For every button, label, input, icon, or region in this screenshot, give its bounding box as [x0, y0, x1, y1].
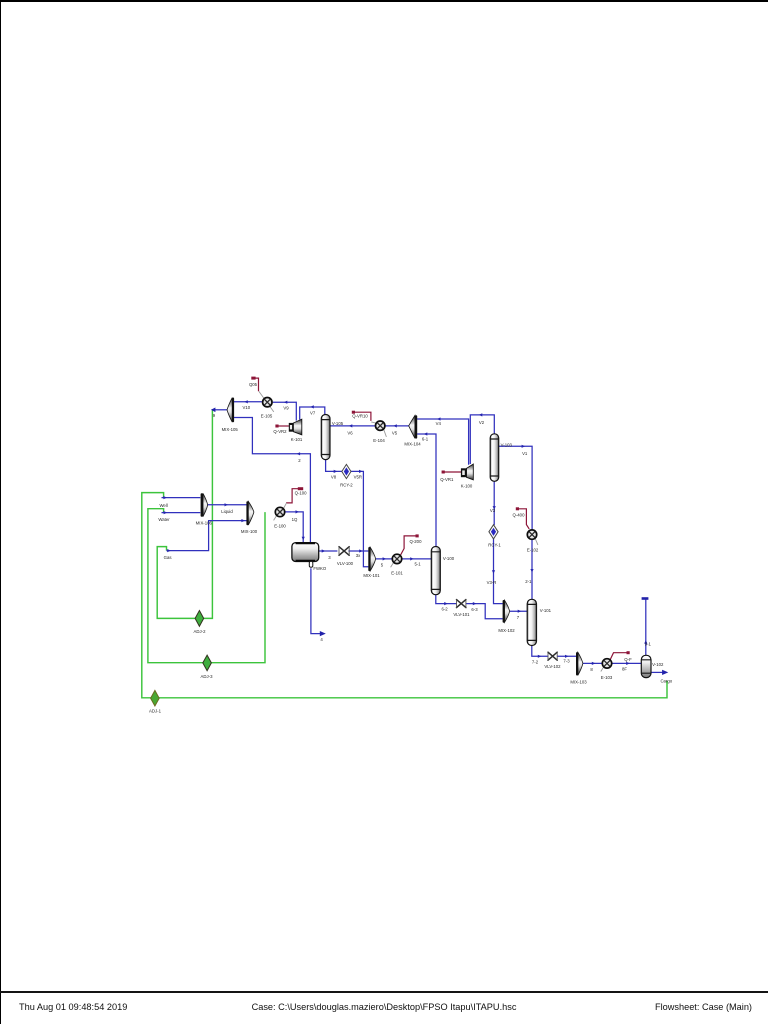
arrow 2-1 [530, 569, 533, 573]
svg-text:ADJ-2: ADJ-2 [194, 629, 207, 634]
arrow Gas [167, 549, 171, 552]
svg-text:3: 3 [328, 555, 331, 560]
cooler E-105 [259, 391, 274, 412]
arrow V5R [359, 470, 363, 473]
footer flowsheet text [655, 1002, 752, 1012]
svg-text:V3-R: V3-R [487, 580, 497, 585]
arrow V3-R [492, 570, 495, 574]
arrow V6 [349, 424, 353, 427]
svg-text:5-1: 5-1 [414, 561, 421, 566]
svg-text:VLV-100: VLV-100 [337, 561, 354, 566]
energy stream Q-VR10 [352, 412, 371, 421]
svg-text:E-101: E-101 [391, 571, 403, 576]
svg-text:5: 5 [381, 562, 384, 567]
svg-text:RCY-2: RCY-2 [340, 483, 353, 488]
wire ADJ-3 net (Water to stream x) [148, 509, 265, 663]
arrow Gas up [241, 519, 245, 522]
svg-text:Q-200: Q-200 [410, 539, 423, 544]
arrow Well [163, 496, 167, 499]
arrow V5 [393, 424, 397, 427]
wire V7 [300, 407, 325, 420]
svg-text:6-3: 6-3 [471, 607, 478, 612]
svg-text:Q-F: Q-F [624, 657, 632, 662]
svg-text:ADJ-1: ADJ-1 [149, 709, 162, 714]
svg-text:E-104: E-104 [373, 438, 385, 443]
svg-text:MIX-101: MIX-101 [363, 573, 380, 578]
arrow 2 [297, 452, 301, 455]
energy stream Q-100 [286, 489, 300, 503]
ARROWS [163, 400, 647, 665]
svg-text:Q-400: Q-400 [513, 513, 526, 518]
energy end Q-100 [298, 487, 303, 490]
mixer MIX-105 [227, 398, 234, 423]
arrow 5 [383, 557, 387, 560]
svg-text:Q-VR10: Q-VR10 [352, 414, 368, 419]
svg-text:Well: Well [159, 503, 167, 508]
svg-text:Water: Water [158, 517, 170, 522]
svg-text:V-100: V-100 [443, 556, 455, 561]
arrow V10 [244, 400, 248, 403]
cooler E-104 [371, 421, 386, 437]
wire 2 [234, 418, 311, 543]
svg-text:9-1: 9-1 [645, 642, 652, 647]
svg-text:E-105: E-105 [261, 413, 273, 418]
mixer MIX-101 [368, 547, 375, 571]
valve VLV-100 [339, 547, 349, 556]
stream end 9-1 [642, 597, 649, 600]
arrow 1Q [296, 510, 300, 513]
arrow 3x [359, 549, 363, 552]
wire 4 [311, 568, 321, 633]
svg-text:FWKO: FWKO [313, 566, 327, 571]
svg-text:Q-VR1: Q-VR1 [440, 477, 454, 482]
energy stream Q-105 [252, 378, 259, 391]
adjust ADJ-1 [151, 690, 160, 706]
recycle RCY-1 [489, 525, 498, 539]
column V-101 [527, 599, 536, 645]
heater E-101 [391, 554, 402, 567]
cooler E-102 [527, 530, 538, 545]
svg-text:2-1: 2-1 [525, 579, 532, 584]
svg-text:9: 9 [213, 413, 216, 418]
arrow 7-3 [565, 655, 569, 658]
svg-text:V7: V7 [310, 411, 316, 416]
svg-text:3x: 3x [356, 553, 361, 558]
wire 8F [611, 662, 641, 664]
wire V8 [326, 460, 343, 472]
wire V5R [351, 471, 369, 566]
arrow 5-1 [410, 557, 414, 560]
adjust ADJ-3 [203, 655, 212, 671]
mixer MIX-104 [409, 415, 417, 438]
arrow 3 [322, 549, 326, 552]
column V-103 [490, 434, 499, 482]
wire Cargo [651, 671, 663, 673]
svg-text:Q-100: Q-100 [295, 490, 308, 495]
svg-text:MIX-105: MIX-105 [222, 427, 239, 432]
stream end 9 [211, 408, 216, 413]
valve VLV-102 [548, 652, 557, 660]
arrow 6-2 [444, 602, 448, 605]
svg-text:K-100: K-100 [461, 484, 473, 489]
wire 9 [212, 409, 227, 411]
arrow V2 [479, 413, 483, 416]
svg-text:E-103: E-103 [601, 675, 613, 680]
wire V6 [330, 425, 375, 427]
svg-text:VLV-102: VLV-102 [544, 664, 561, 669]
svg-text:8F: 8F [622, 666, 627, 671]
arrow 8 [592, 662, 596, 665]
arrow 8F [626, 662, 630, 665]
wire 8 [583, 662, 603, 664]
mixer MIX-106 [201, 493, 208, 517]
svg-text:8: 8 [590, 667, 593, 672]
svg-text:Q-VR2: Q-VR2 [273, 429, 287, 434]
svg-text:Q05: Q05 [249, 382, 258, 387]
svg-text:V6: V6 [347, 431, 353, 436]
wire 3 [319, 550, 338, 552]
arrow V1 [522, 445, 526, 448]
svg-text:2: 2 [298, 458, 301, 463]
stream end Cargo [662, 670, 668, 675]
heater E-100 [274, 503, 287, 521]
svg-text:V8: V8 [331, 474, 337, 479]
svg-text:7: 7 [517, 615, 520, 620]
footer date text [19, 1002, 127, 1012]
svg-text:V3: V3 [490, 508, 496, 513]
svg-text:6-1: 6-1 [422, 437, 429, 442]
wire 6-2 [436, 595, 457, 604]
wire V9 [273, 402, 297, 420]
energy end Q-VR1 [442, 471, 445, 474]
wire V5 [385, 425, 409, 427]
mixer MIX-103 [576, 652, 583, 675]
svg-text:V5: V5 [392, 431, 398, 436]
wire Water [162, 512, 201, 514]
arrow V4 [437, 417, 441, 420]
energy end Q-F [627, 651, 630, 654]
energy stream Q-VR1 [442, 471, 461, 473]
arrow 6-3 [473, 602, 477, 605]
svg-text:1Q: 1Q [292, 517, 298, 522]
energy end Q-400 [516, 507, 519, 510]
arrow Liquid [225, 503, 229, 506]
footer separator [0, 0, 768, 2]
wire Well [162, 497, 201, 499]
wire 9-1 [645, 599, 647, 655]
energy stream Q-F [610, 653, 629, 660]
BLUE [162, 402, 664, 673]
wire V4 [417, 419, 469, 465]
svg-text:MIX-104: MIX-104 [404, 442, 421, 447]
svg-text:V5R: V5R [354, 474, 362, 479]
svg-text:V-102: V-102 [652, 662, 664, 667]
svg-text:VLV-101: VLV-101 [453, 612, 470, 617]
svg-text:6-2: 6-2 [441, 606, 448, 611]
mixer MIX-100 [246, 501, 254, 525]
wire 5 [376, 558, 393, 560]
GREEN [142, 410, 667, 698]
svg-text:MIX-106: MIX-106 [196, 521, 213, 526]
svg-text:MIX-100: MIX-100 [241, 529, 258, 534]
wire Gas [167, 521, 247, 551]
svg-text:V10: V10 [242, 405, 250, 410]
wire ADJ-1 net (Well to Cargo) [142, 493, 667, 698]
vessel V-102 [641, 655, 651, 677]
svg-text:MIX-103: MIX-103 [570, 680, 587, 685]
adjust ADJ-2 [195, 611, 204, 627]
energy end Q-105 [251, 377, 255, 380]
svg-text:V-101: V-101 [540, 608, 552, 613]
energy end Q-VR2 [275, 425, 278, 428]
arrow 7 [518, 610, 522, 613]
footer case text [0, 1002, 768, 1012]
column V-100 [431, 547, 440, 595]
svg-text:K-101: K-101 [291, 437, 303, 442]
arrow 1Q down [302, 537, 305, 541]
energy end Q-200 [416, 534, 419, 537]
wire V1 [499, 446, 532, 529]
wire 1Q [284, 512, 303, 543]
arrow 7-2 [538, 655, 542, 658]
heater E-103 [601, 659, 612, 672]
arrow V8 [334, 470, 338, 473]
svg-text:V1: V1 [522, 451, 528, 456]
compressor K-100 [461, 464, 473, 480]
valve VLV-101 [457, 600, 466, 608]
wire 7-2 [532, 645, 548, 656]
wire ADJ-2 net (Gas to stream 9) [157, 410, 212, 619]
svg-text:4: 4 [320, 637, 323, 642]
arrow Water [164, 511, 168, 514]
arrow 6-1 [424, 432, 428, 435]
stream end 4 [320, 631, 326, 636]
svg-text:RCY-1: RCY-1 [488, 543, 501, 548]
svg-text:V9: V9 [283, 406, 289, 411]
wire 2-1 [531, 540, 533, 600]
wire V2 [470, 415, 494, 464]
MAROON [252, 378, 630, 660]
svg-text:V-103: V-103 [501, 443, 513, 448]
svg-text:E-100: E-100 [274, 524, 286, 529]
svg-text:V4: V4 [436, 421, 442, 426]
energy stream Q-400 [516, 509, 529, 529]
svg-text:V-105: V-105 [332, 421, 344, 426]
wire V10 [234, 401, 262, 403]
wire 5-1 [401, 558, 431, 560]
wire V3-R [494, 539, 503, 604]
svg-text:ADJ-3: ADJ-3 [201, 674, 214, 679]
wire Liquid [207, 504, 246, 506]
vessel FWKO [292, 543, 319, 568]
energy stream Q-VR2 [276, 425, 289, 427]
svg-text:Liquid: Liquid [221, 509, 233, 514]
svg-text:Gas: Gas [164, 555, 172, 560]
svg-text:7-2: 7-2 [532, 659, 539, 664]
compressor K-101 [289, 419, 302, 435]
energy stream Q-200 [400, 536, 418, 556]
arrow V9 [284, 401, 288, 404]
arrow V3 [493, 506, 496, 510]
svg-text:V2: V2 [479, 420, 485, 425]
wire 7 [510, 610, 528, 612]
svg-text:MIX-102: MIX-102 [498, 628, 515, 633]
energy end Q-VR10 [352, 411, 355, 414]
wire 6-3 [466, 604, 503, 619]
wire 6-1 [417, 434, 436, 547]
recycle RCY-2 [342, 464, 351, 478]
LABELS [149, 382, 673, 714]
mixer MIX-102 [503, 600, 510, 623]
wire 3x [348, 550, 368, 552]
arrow 9-1 up [644, 640, 647, 644]
arrow V7 [310, 405, 314, 408]
svg-text:7-3: 7-3 [563, 658, 570, 663]
svg-text:Cargo: Cargo [660, 678, 672, 683]
wire V3 [493, 481, 495, 525]
wire 7-3 [557, 655, 576, 657]
svg-text:E-102: E-102 [527, 547, 539, 552]
column V-105 [321, 415, 330, 460]
